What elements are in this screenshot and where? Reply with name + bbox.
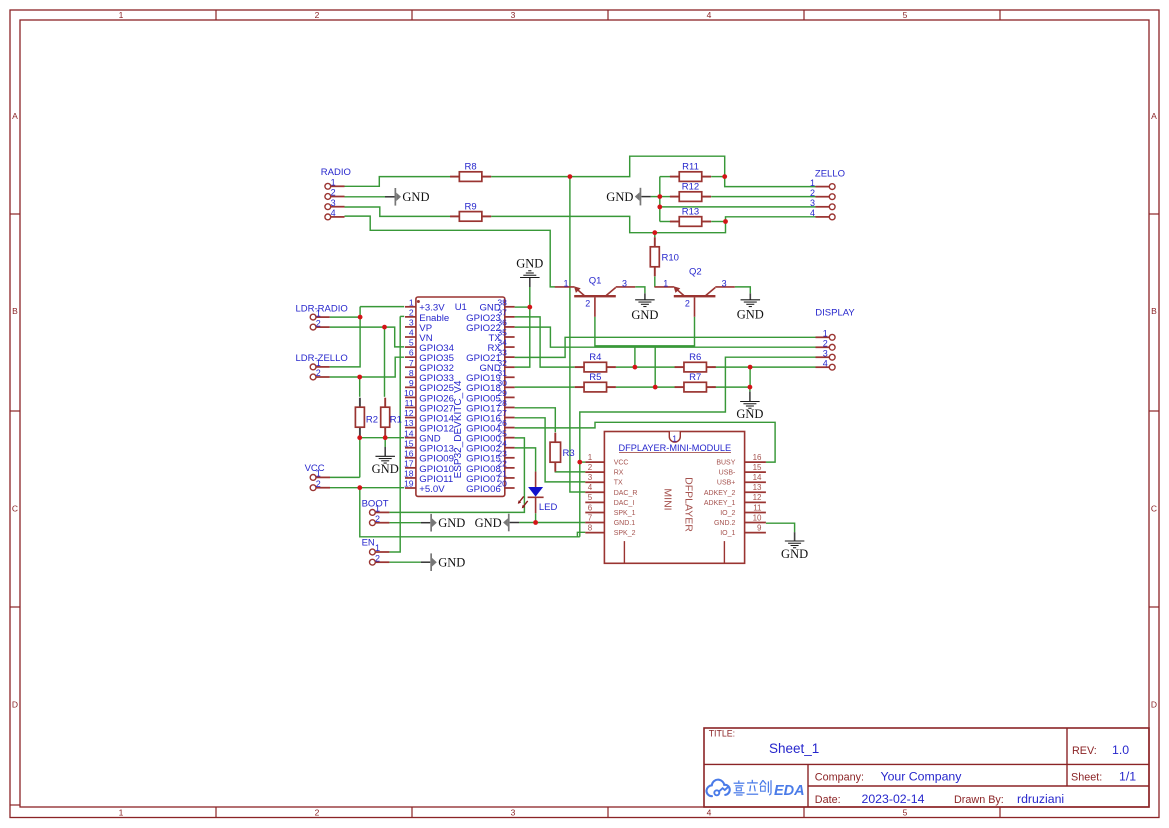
svg-text:GND: GND [372, 462, 399, 476]
svg-text:1: 1 [119, 10, 124, 20]
svg-text:7: 7 [409, 358, 414, 368]
svg-text:3: 3 [622, 278, 627, 288]
svg-text:A: A [1151, 111, 1157, 121]
svg-text:12: 12 [404, 408, 414, 418]
svg-text:B: B [1151, 306, 1157, 316]
svg-text:IO_2: IO_2 [720, 510, 735, 517]
svg-text:ESP32_DEVKITC_V4: ESP32_DEVKITC_V4 [453, 380, 464, 478]
svg-text:Q1: Q1 [589, 275, 602, 286]
svg-text:1: 1 [672, 433, 677, 443]
svg-text:4: 4 [707, 10, 712, 20]
svg-text:LDR-RADIO: LDR-RADIO [296, 303, 348, 314]
svg-text:15: 15 [753, 463, 762, 472]
svg-text:1: 1 [409, 297, 414, 307]
svg-text:19: 19 [404, 479, 414, 489]
svg-text:R10: R10 [662, 253, 679, 264]
svg-text:1: 1 [588, 453, 593, 462]
svg-text:1.0: 1.0 [1112, 743, 1129, 757]
svg-text:RX: RX [614, 470, 624, 477]
svg-text:3: 3 [588, 473, 593, 482]
svg-text:9: 9 [757, 523, 762, 532]
svg-text:VCC: VCC [614, 460, 629, 467]
svg-text:2: 2 [375, 514, 380, 524]
svg-text:LDR-ZELLO: LDR-ZELLO [296, 353, 348, 364]
svg-text:GND.1: GND.1 [614, 520, 636, 527]
svg-text:8: 8 [409, 368, 414, 378]
svg-text:VCC: VCC [305, 463, 325, 474]
svg-text:17: 17 [404, 458, 414, 468]
svg-text:USB-: USB- [719, 470, 736, 477]
svg-text:ADKEY_1: ADKEY_1 [704, 500, 736, 507]
svg-text:2: 2 [315, 807, 320, 817]
svg-text:5: 5 [903, 10, 908, 20]
svg-text:rdruziani: rdruziani [1017, 792, 1064, 806]
svg-text:2: 2 [331, 188, 336, 198]
svg-text:5: 5 [903, 807, 908, 817]
svg-text:GND: GND [402, 190, 429, 204]
svg-text:3: 3 [511, 807, 516, 817]
svg-text:6: 6 [588, 503, 593, 512]
svg-text:D: D [1151, 700, 1157, 710]
svg-text:GND: GND [516, 256, 543, 270]
svg-text:DAC_I: DAC_I [614, 500, 635, 507]
svg-text:GND: GND [781, 547, 808, 561]
svg-text:ADKEY_2: ADKEY_2 [704, 490, 736, 497]
svg-text:14: 14 [753, 473, 762, 482]
svg-text:1: 1 [375, 543, 380, 553]
svg-text:3: 3 [823, 348, 828, 358]
svg-text:2023-02-14: 2023-02-14 [862, 792, 925, 806]
svg-text:2: 2 [316, 368, 321, 378]
svg-text:4: 4 [823, 358, 828, 368]
svg-text:+5.0V: +5.0V [419, 484, 445, 495]
svg-text:1: 1 [119, 807, 124, 817]
svg-text:C: C [1151, 504, 1157, 514]
svg-text:R7: R7 [689, 372, 701, 383]
svg-text:R4: R4 [589, 352, 601, 363]
svg-text:BUSY: BUSY [716, 460, 735, 467]
svg-text:7: 7 [588, 513, 593, 522]
svg-text:5: 5 [588, 493, 593, 502]
svg-text:2: 2 [375, 553, 380, 563]
svg-text:1: 1 [331, 178, 336, 188]
svg-text:1: 1 [316, 308, 321, 318]
svg-text:IO_1: IO_1 [720, 530, 735, 537]
svg-text:2: 2 [685, 299, 690, 309]
svg-text:GND: GND [475, 516, 502, 530]
svg-text:DAC_R: DAC_R [614, 490, 638, 497]
svg-text:R1: R1 [390, 414, 402, 425]
svg-text:GND: GND [631, 308, 658, 322]
svg-text:4: 4 [707, 807, 712, 817]
svg-text:R9: R9 [465, 201, 477, 212]
svg-text:A: A [12, 111, 18, 121]
svg-text:REV:: REV: [1072, 745, 1097, 757]
svg-text:GND: GND [737, 308, 764, 322]
svg-text:4: 4 [810, 208, 815, 218]
svg-text:SPK_1: SPK_1 [614, 510, 636, 517]
svg-text:D: D [12, 700, 18, 710]
svg-text:EN: EN [362, 538, 375, 549]
svg-text:13: 13 [404, 418, 414, 428]
svg-text:1: 1 [375, 504, 380, 514]
svg-text:GND.2: GND.2 [714, 520, 736, 527]
svg-text:ZELLO: ZELLO [815, 169, 845, 180]
svg-text:4: 4 [409, 328, 414, 338]
svg-text:16: 16 [753, 453, 762, 462]
svg-text:R6: R6 [689, 352, 701, 363]
svg-text:GND: GND [736, 407, 763, 421]
svg-text:3: 3 [331, 198, 336, 208]
svg-text:11: 11 [753, 503, 762, 512]
svg-text:Company:: Company: [815, 772, 864, 784]
svg-text:2: 2 [316, 479, 321, 489]
svg-text:5: 5 [409, 338, 414, 348]
svg-text:9: 9 [409, 378, 414, 388]
svg-text:TITLE:: TITLE: [709, 729, 735, 739]
svg-text:C: C [12, 504, 18, 514]
svg-text:R8: R8 [465, 162, 477, 173]
svg-text:EDA: EDA [774, 783, 805, 799]
svg-text:DISPLAY: DISPLAY [815, 308, 855, 319]
svg-text:R13: R13 [682, 207, 699, 218]
svg-text:GPIO06: GPIO06 [466, 484, 501, 495]
svg-text:11: 11 [405, 398, 414, 408]
svg-text:Your Company: Your Company [881, 770, 963, 784]
svg-text:DFPLAYER-MINI-MODULE: DFPLAYER-MINI-MODULE [618, 443, 731, 453]
svg-text:1: 1 [823, 329, 828, 339]
svg-text:15: 15 [404, 438, 414, 448]
svg-text:10: 10 [753, 513, 762, 522]
svg-text:2: 2 [823, 338, 828, 348]
svg-text:13: 13 [753, 483, 762, 492]
svg-text:3: 3 [409, 318, 414, 328]
svg-text:3: 3 [810, 198, 815, 208]
svg-text:2: 2 [585, 299, 590, 309]
svg-text:R11: R11 [682, 162, 699, 173]
svg-text:MINI: MINI [662, 488, 674, 510]
svg-text:1: 1 [316, 469, 321, 479]
svg-text:Q2: Q2 [689, 266, 702, 277]
svg-text:12: 12 [753, 493, 762, 502]
svg-text:1/1: 1/1 [1119, 770, 1136, 784]
svg-text:3: 3 [722, 278, 727, 288]
svg-text:DFPLAYER: DFPLAYER [683, 477, 695, 532]
svg-text:1: 1 [564, 278, 569, 288]
svg-text:LED: LED [539, 502, 558, 513]
svg-text:R2: R2 [366, 414, 378, 425]
svg-text:4: 4 [588, 483, 593, 492]
svg-text:GND: GND [438, 556, 465, 570]
svg-text:USB+: USB+ [717, 480, 735, 487]
svg-text:2: 2 [316, 318, 321, 328]
svg-text:1: 1 [810, 178, 815, 188]
svg-text:2: 2 [588, 463, 593, 472]
svg-text:1: 1 [663, 278, 668, 288]
svg-text:R12: R12 [682, 182, 699, 193]
svg-text:6: 6 [409, 348, 414, 358]
svg-text:B: B [12, 306, 18, 316]
svg-text:2: 2 [409, 307, 414, 317]
svg-text:Drawn By:: Drawn By: [954, 794, 1004, 806]
svg-text:8: 8 [588, 523, 593, 532]
svg-text:GND: GND [606, 190, 633, 204]
svg-text:U1: U1 [455, 302, 467, 313]
svg-text:10: 10 [404, 388, 414, 398]
svg-text:3: 3 [511, 10, 516, 20]
svg-text:R3: R3 [563, 448, 575, 459]
svg-text:16: 16 [404, 448, 414, 458]
svg-text:4: 4 [331, 208, 336, 218]
svg-text:R5: R5 [589, 372, 601, 383]
svg-text:14: 14 [404, 428, 414, 438]
svg-text:GND: GND [438, 516, 465, 530]
svg-text:Date:: Date: [815, 794, 841, 806]
svg-text:SPK_2: SPK_2 [614, 530, 636, 537]
svg-text:TX: TX [614, 480, 623, 487]
svg-text:2: 2 [315, 10, 320, 20]
svg-text:RADIO: RADIO [321, 167, 351, 178]
svg-text:Sheet_1: Sheet_1 [769, 741, 819, 756]
svg-text:1: 1 [316, 358, 321, 368]
svg-text:Sheet:: Sheet: [1071, 772, 1102, 784]
svg-text:2: 2 [810, 188, 815, 198]
svg-text:18: 18 [404, 469, 414, 479]
